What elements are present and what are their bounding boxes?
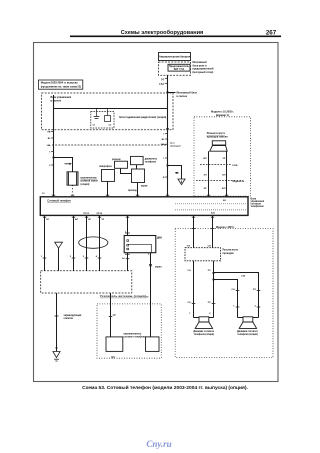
svg-text:ВП: ВП	[203, 158, 207, 160]
svg-text:ЗЛ: ЗЛ	[204, 175, 207, 177]
svg-text:267: 267	[266, 30, 277, 37]
svg-text:12: 12	[42, 193, 45, 195]
svg-text:ПР15: ПР15	[97, 213, 103, 215]
svg-text:С2: С2	[109, 125, 113, 127]
svg-text:Сотовый телефон: Сотовый телефон	[47, 199, 71, 203]
svg-text:3: 3	[83, 256, 85, 258]
svg-text:Усилитель антенны (опция): Усилитель антенны (опция)	[100, 294, 146, 298]
svg-text:СН: СН	[187, 270, 191, 272]
svg-text:проводов: проводов	[170, 146, 181, 148]
svg-text:жгут: жгут	[169, 143, 176, 145]
svg-text:РЗ: РЗ	[208, 302, 211, 304]
svg-text:Динамик сотового: Динамик сотового	[237, 331, 258, 333]
svg-text:СН: СН	[231, 289, 235, 291]
svg-text:Спу.ru: Спу.ru	[146, 439, 171, 449]
svg-text:14А: 14А	[46, 144, 50, 147]
svg-text:ПР13: ПР13	[84, 213, 90, 215]
svg-text:1: 1	[189, 313, 191, 315]
svg-text:КР: КР	[88, 219, 91, 221]
svg-text:В2: В2	[223, 200, 227, 202]
svg-text:ДИН: ДИН	[157, 238, 162, 240]
svg-text:Динамик сотового: Динамик сотового	[193, 331, 214, 333]
svg-text:Схемы электрооборудования: Схемы электрооборудования	[121, 29, 204, 36]
svg-text:провод: провод	[128, 190, 137, 192]
svg-text:экран: экран	[141, 186, 148, 188]
svg-text:РЗ: РЗ	[208, 270, 211, 272]
svg-text:1: 1	[163, 134, 165, 136]
svg-text:С21Б: С21Б	[232, 165, 238, 167]
svg-text:Схема 53. Сотовый телефон (мод: Схема 53. Сотовый телефон (модели 2003-2…	[82, 384, 248, 391]
svg-text:переключатель: переключатель	[124, 333, 142, 335]
svg-text:ВАТ 7,5А: ВАТ 7,5А	[174, 68, 185, 71]
svg-text:2: 2	[255, 305, 257, 307]
svg-text:СН: СН	[187, 302, 191, 304]
svg-text:блок подавления радиопомех (оп: блок подавления радиопомех (опция)	[119, 116, 166, 119]
svg-text:Модели 04: Модели 04	[233, 180, 245, 183]
svg-text:Модели с 2004 г.: Модели с 2004 г.	[216, 226, 235, 229]
svg-text:ЧР: ЧР	[101, 219, 105, 221]
svg-text:2: 2	[148, 254, 150, 256]
svg-text:телефоном: телефоном	[251, 205, 264, 208]
svg-text:телефона (опция): телефона (опция)	[237, 333, 258, 336]
svg-text:14А: 14А	[160, 143, 164, 146]
svg-text:1: 1	[49, 152, 51, 154]
svg-text:РЗ: РЗ	[253, 289, 256, 291]
svg-text:А21: А21	[211, 211, 216, 214]
svg-text:разъем: разъем	[112, 159, 121, 161]
svg-text:микрофон: микрофон	[99, 165, 112, 168]
svg-text:ЖЛ: ЖЛ	[222, 188, 226, 190]
svg-text:В1: В1	[162, 139, 166, 141]
svg-text:проводов панели: проводов панели	[207, 135, 228, 138]
svg-text:(опция): (опция)	[81, 183, 90, 186]
svg-text:оплетка: оплетка	[64, 317, 74, 320]
svg-text:С1: С1	[93, 125, 97, 127]
svg-text:В: В	[163, 177, 165, 179]
svg-text:1: 1	[41, 256, 43, 258]
svg-text:Аккумуляторная батарея: Аккумуляторная батарея	[159, 56, 191, 59]
svg-text:2: 2	[209, 313, 211, 315]
svg-text:1: 1	[233, 305, 235, 307]
svg-text:СН: СН	[208, 246, 212, 248]
svg-text:2: 2	[49, 165, 51, 167]
svg-text:4: 4	[96, 255, 98, 258]
svg-text:НВ: НВ	[47, 132, 51, 134]
svg-text:ЗЛ: ЗЛ	[46, 219, 49, 221]
svg-text:ЧР: ЧР	[222, 158, 226, 160]
svg-text:КР: КР	[204, 188, 207, 190]
svg-text:БЛ: БЛ	[75, 219, 79, 221]
svg-text:10: 10	[146, 297, 149, 299]
svg-text:ЦЗ: ЦЗ	[113, 315, 117, 317]
svg-text:держатель: держатель	[145, 159, 158, 161]
svg-text:экран: экран	[155, 267, 162, 269]
svg-text:телефона (опция): телефона (опция)	[194, 333, 215, 336]
svg-text:БЛ: БЛ	[222, 175, 226, 177]
svg-text:проводов: проводов	[223, 253, 235, 255]
svg-text:Модели 2003-2004 гг. выпуска: Модели 2003-2004 гг. выпуска	[41, 82, 78, 85]
svg-text:(моторный отсек): (моторный отсек)	[193, 71, 214, 74]
svg-text:7,5А: 7,5А	[159, 83, 164, 86]
svg-text:2: 2	[70, 256, 72, 258]
svg-text:(+): (+)	[161, 79, 164, 81]
svg-text:сотового телефона: сотового телефона	[124, 336, 147, 339]
svg-text:14: 14	[122, 257, 125, 260]
svg-text:телефона: телефона	[145, 161, 157, 164]
svg-text:1: 1	[163, 158, 165, 160]
svg-text:Разъем жгута: Разъем жгута	[223, 250, 239, 252]
svg-text:ЗМ: ЗМ	[175, 173, 178, 175]
svg-text:В1: В1	[48, 138, 52, 140]
svg-text:(продолжение см. также схему 5: (продолжение см. также схему 52)	[41, 86, 82, 89]
svg-text:РЗ: РЗ	[187, 246, 190, 248]
svg-text:в салоне: в салоне	[177, 95, 188, 98]
svg-text:С34: С34	[241, 275, 246, 278]
svg-text:в салоне: в салоне	[51, 99, 62, 102]
svg-text:(вариант 1): (вариант 1)	[216, 114, 229, 117]
